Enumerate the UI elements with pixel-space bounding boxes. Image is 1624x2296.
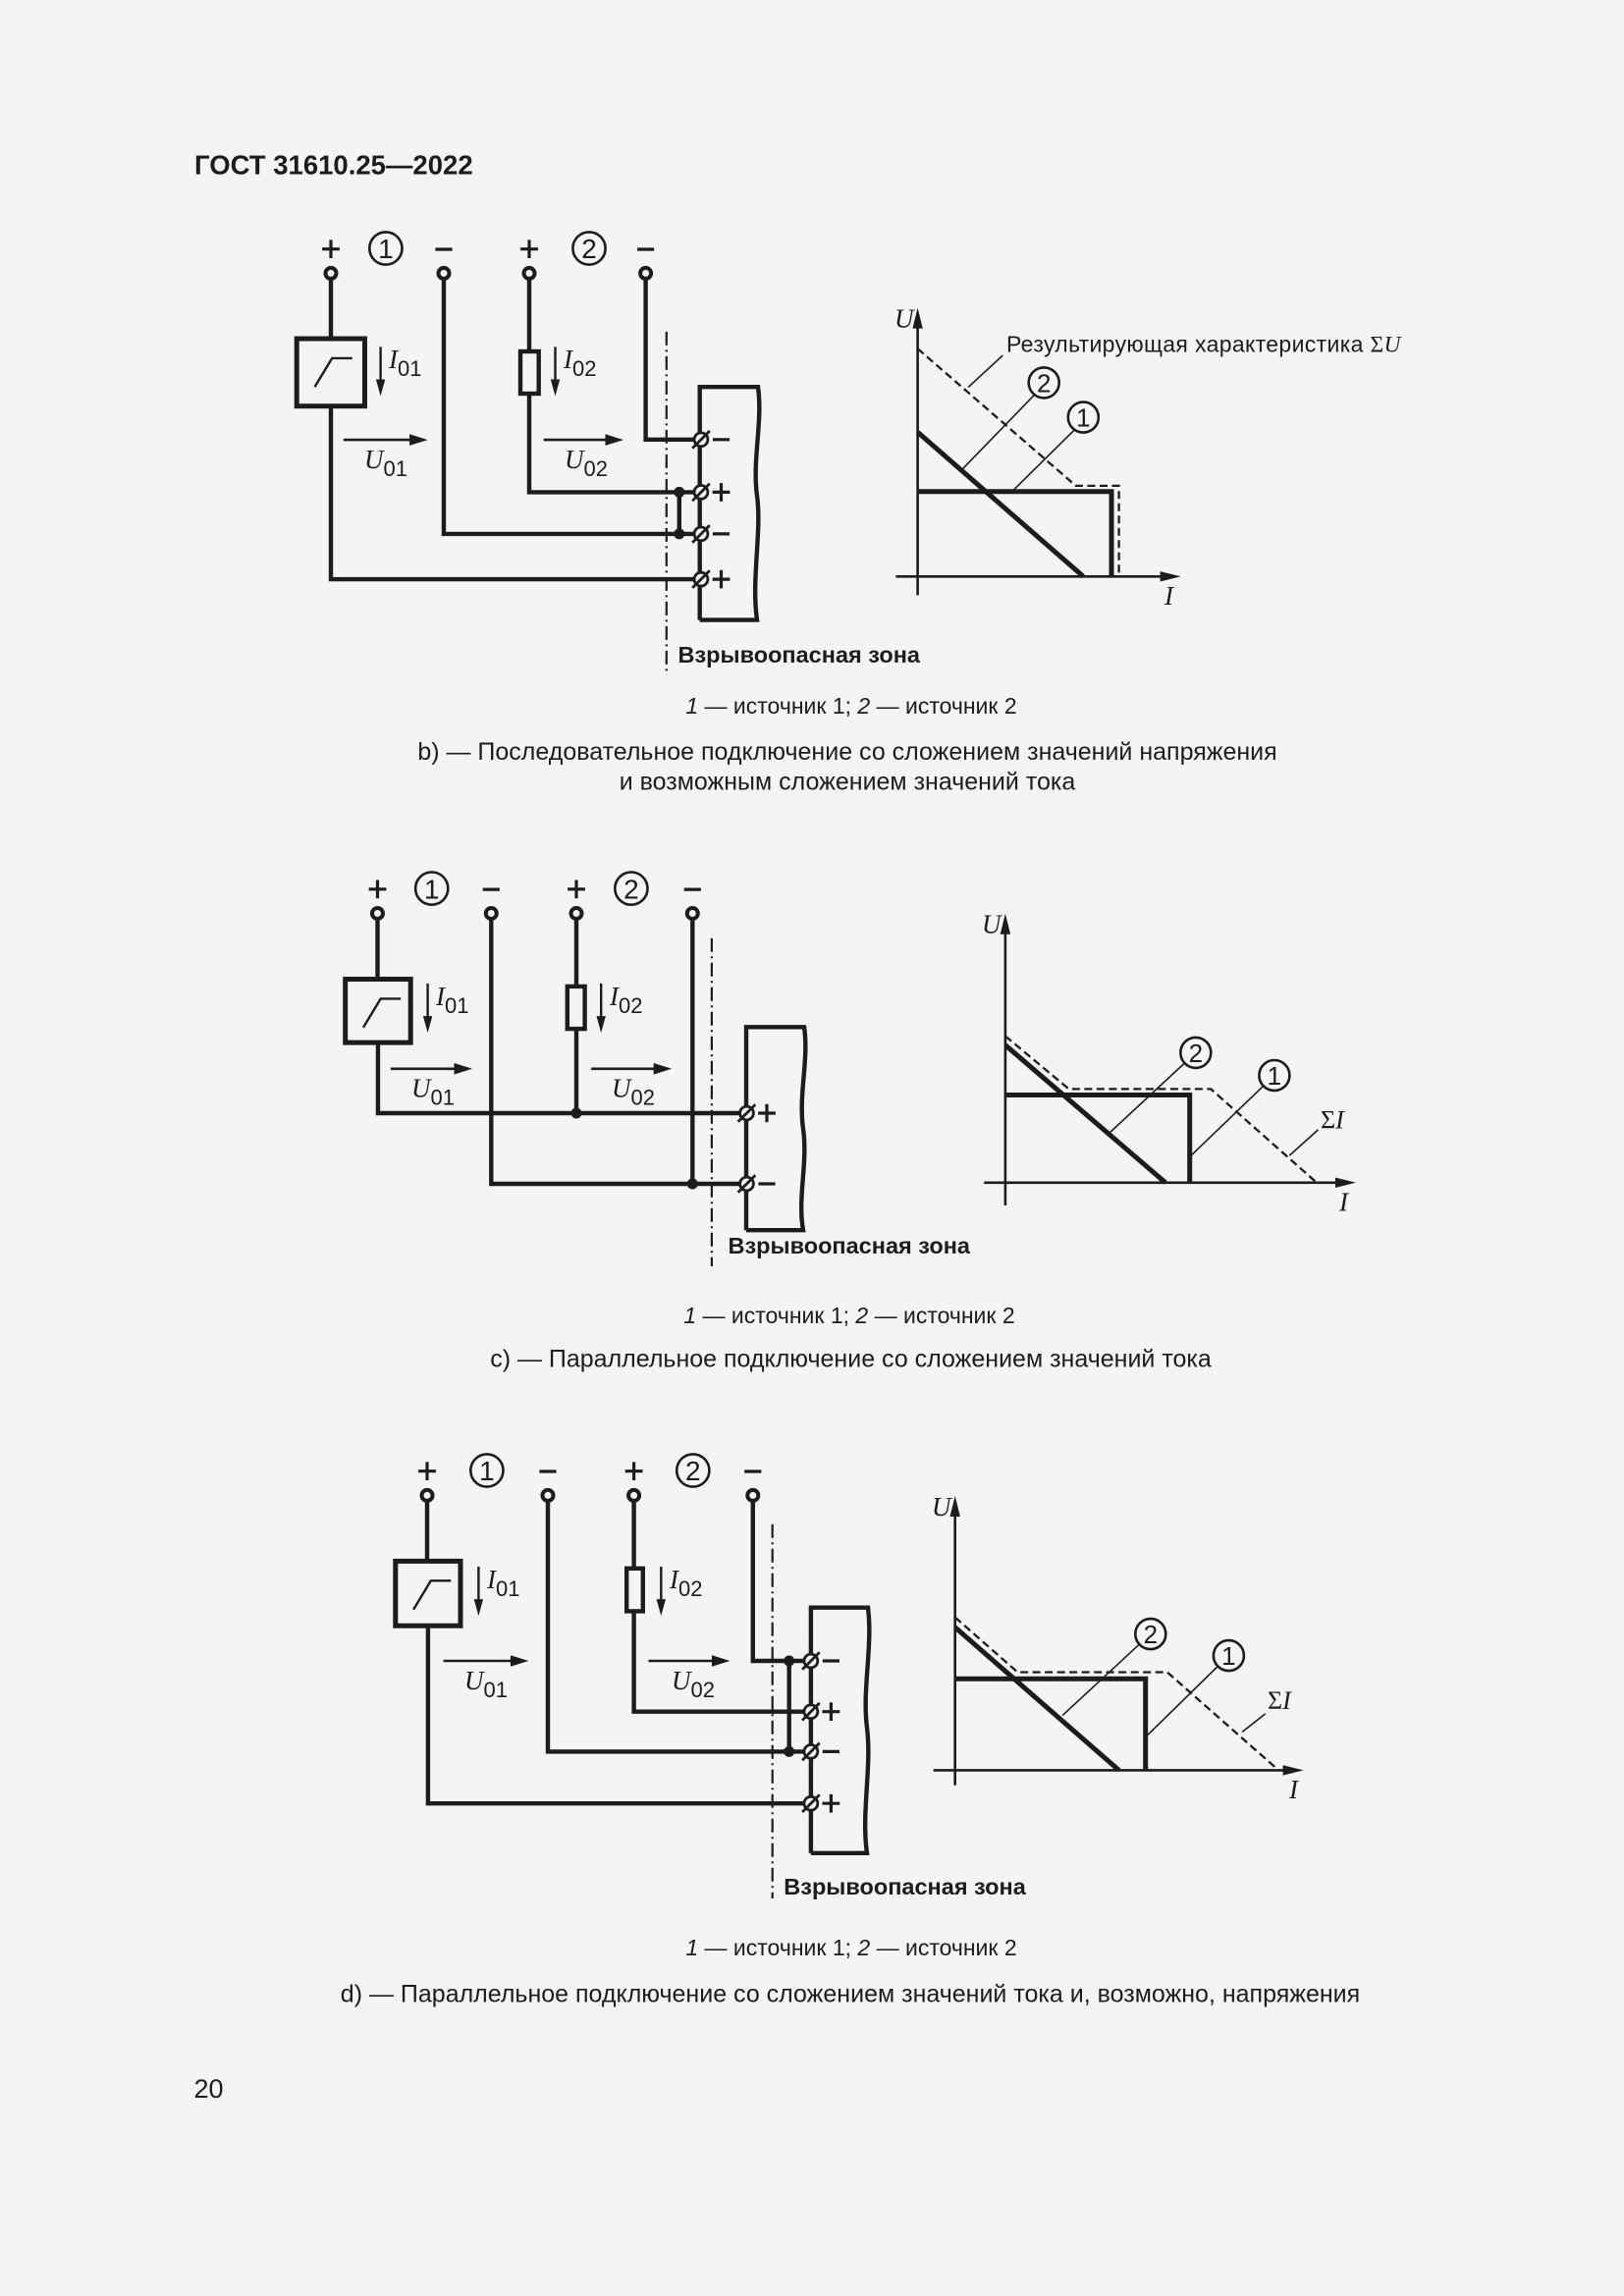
svg-text:1: 1 [1076, 403, 1090, 433]
svg-text:b) — Последовательное подключе: b) — Последовательное подключение со сло… [417, 738, 1276, 766]
svg-text:I: I [1338, 1188, 1350, 1217]
svg-text:c) — Параллельное подключение: c) — Параллельное подключение со сложени… [490, 1345, 1212, 1372]
svg-text:I01: I01 [388, 345, 421, 381]
svg-text:U02: U02 [612, 1074, 655, 1110]
svg-text:I01: I01 [486, 1565, 519, 1601]
svg-text:Результирующая характеристика: Результирующая характеристика ΣU [1006, 331, 1403, 357]
svg-text:U01: U01 [364, 445, 407, 481]
svg-text:Взрывоопасная зона: Взрывоопасная зона [784, 1874, 1026, 1899]
svg-text:20: 20 [194, 2074, 224, 2104]
svg-text:1 — источник 1; 2 — источник 2: 1 — источник 1; 2 — источник 2 [685, 1935, 1016, 1960]
svg-text:1: 1 [479, 1456, 495, 1486]
svg-text:ΣI: ΣI [1321, 1105, 1345, 1134]
svg-text:d) — Параллельное подключение: d) — Параллельное подключение со сложени… [341, 1981, 1360, 2008]
svg-text:2: 2 [623, 874, 639, 904]
svg-text:U02: U02 [672, 1666, 715, 1702]
svg-text:1 — источник 1; 2 — источник 2: 1 — источник 1; 2 — источник 2 [683, 1303, 1014, 1328]
svg-text:1: 1 [1221, 1641, 1235, 1671]
svg-text:2: 2 [1144, 1620, 1158, 1649]
svg-text:I: I [1288, 1775, 1300, 1804]
svg-text:ΣI: ΣI [1268, 1686, 1292, 1715]
svg-text:U: U [932, 1492, 952, 1522]
svg-text:I: I [1164, 581, 1175, 611]
svg-text:1: 1 [378, 234, 394, 264]
svg-text:U: U [982, 910, 1002, 939]
svg-text:U01: U01 [464, 1666, 508, 1702]
svg-text:I02: I02 [563, 345, 596, 381]
svg-text:1: 1 [1268, 1061, 1281, 1091]
svg-text:1: 1 [424, 874, 440, 904]
svg-text:2: 2 [1189, 1039, 1203, 1068]
svg-text:U01: U01 [411, 1074, 455, 1110]
svg-text:I02: I02 [669, 1565, 702, 1601]
svg-text:I01: I01 [435, 982, 468, 1018]
svg-text:U: U [894, 303, 915, 333]
svg-text:ГОСТ 31610.25—2022: ГОСТ 31610.25—2022 [194, 150, 473, 181]
svg-text:U02: U02 [565, 445, 608, 481]
svg-text:I02: I02 [609, 982, 642, 1018]
svg-text:Взрывоопасная зона: Взрывоопасная зона [729, 1233, 971, 1258]
svg-text:Взрывоопасная зона: Взрывоопасная зона [678, 642, 921, 667]
svg-text:2: 2 [581, 234, 597, 264]
svg-text:2: 2 [1037, 368, 1051, 398]
svg-text:и возможным сложением значений: и возможным сложением значений тока [620, 769, 1076, 796]
svg-text:1 — источник 1; 2 — источник 2: 1 — источник 1; 2 — источник 2 [685, 693, 1016, 719]
svg-text:2: 2 [685, 1456, 701, 1486]
